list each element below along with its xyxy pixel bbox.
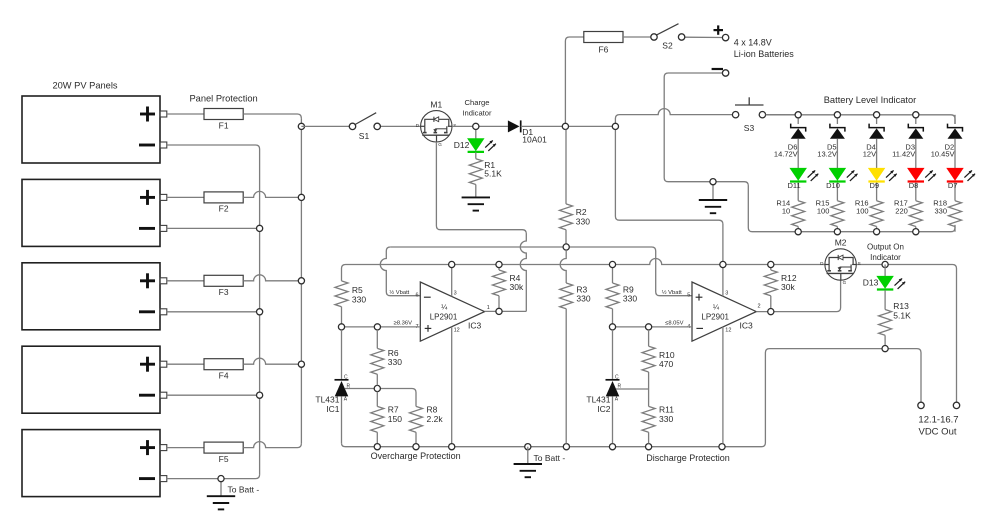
svg-text:LP2901: LP2901: [701, 312, 729, 321]
svg-text:C: C: [615, 374, 619, 380]
svg-text:330: 330: [659, 414, 673, 424]
svg-text:14.72V: 14.72V: [774, 150, 798, 159]
svg-text:6: 6: [416, 293, 419, 299]
svg-text:12: 12: [454, 328, 460, 334]
svg-text:Output On: Output On: [867, 242, 904, 251]
svg-text:R2: R2: [576, 207, 587, 217]
svg-text:Indicator: Indicator: [870, 253, 901, 262]
svg-text:D9: D9: [870, 181, 880, 190]
svg-text:30k: 30k: [781, 282, 795, 292]
svg-text:≥8.36V: ≥8.36V: [394, 320, 412, 326]
svg-text:3: 3: [454, 290, 457, 296]
svg-text:To Batt -: To Batt -: [534, 453, 566, 463]
svg-text:5.1K: 5.1K: [893, 311, 911, 321]
svg-text:2: 2: [758, 303, 761, 309]
svg-text:330: 330: [576, 294, 590, 304]
svg-text:220: 220: [895, 207, 908, 216]
svg-text:M2: M2: [835, 238, 847, 248]
svg-text:G: G: [843, 280, 847, 285]
svg-text:Indicator: Indicator: [462, 108, 492, 117]
svg-text:LP2901: LP2901: [430, 312, 458, 321]
svg-text:330: 330: [576, 217, 590, 227]
svg-text:S3: S3: [744, 123, 755, 133]
svg-text:100: 100: [817, 207, 830, 216]
svg-text:30k: 30k: [510, 282, 524, 292]
svg-text:¼: ¼: [441, 302, 448, 311]
svg-text:11.42V: 11.42V: [892, 150, 915, 159]
svg-text:D10: D10: [826, 181, 840, 190]
svg-text:½ Vbatt: ½ Vbatt: [389, 289, 409, 296]
svg-text:F1: F1: [219, 120, 229, 130]
svg-text:F4: F4: [219, 371, 229, 381]
svg-text:10: 10: [782, 207, 790, 216]
svg-text:100: 100: [856, 207, 869, 216]
svg-text:5: 5: [687, 293, 690, 299]
svg-text:R13: R13: [893, 301, 909, 311]
svg-text:Charge: Charge: [465, 98, 490, 107]
svg-text:F2: F2: [219, 204, 229, 214]
svg-text:IC1: IC1: [326, 404, 340, 414]
svg-text:IC2: IC2: [597, 404, 611, 414]
svg-text:G: G: [438, 142, 442, 147]
svg-text:M1: M1: [430, 99, 442, 109]
svg-text:330: 330: [352, 294, 366, 304]
svg-text:D11: D11: [787, 181, 800, 190]
svg-text:½ Vbatt: ½ Vbatt: [662, 289, 682, 296]
svg-text:Discharge Protection: Discharge Protection: [646, 453, 730, 463]
svg-text:IC3: IC3: [740, 320, 754, 330]
svg-text:S: S: [858, 261, 861, 266]
svg-text:C: C: [344, 374, 348, 380]
svg-text:330: 330: [388, 357, 402, 367]
svg-text:330: 330: [623, 294, 637, 304]
svg-text:5.1K: 5.1K: [484, 169, 502, 179]
svg-text:To Batt -: To Batt -: [228, 484, 260, 494]
svg-text:¼: ¼: [713, 302, 720, 311]
svg-text:20W PV Panels: 20W PV Panels: [52, 81, 117, 91]
svg-text:D7: D7: [948, 181, 958, 190]
svg-text:Panel Protection: Panel Protection: [189, 93, 257, 103]
svg-text:2.2k: 2.2k: [427, 414, 444, 424]
svg-text:F6: F6: [598, 44, 608, 54]
svg-text:F5: F5: [219, 454, 229, 464]
svg-text:470: 470: [659, 359, 673, 369]
svg-text:150: 150: [388, 414, 402, 424]
svg-text:Li-ion Batteries: Li-ion Batteries: [734, 49, 795, 59]
svg-text:Overcharge Protection: Overcharge Protection: [371, 451, 461, 461]
svg-text:D13: D13: [863, 277, 879, 287]
svg-text:13.2V: 13.2V: [817, 150, 837, 159]
svg-text:D8: D8: [909, 181, 919, 190]
svg-text:F3: F3: [219, 287, 229, 297]
svg-text:TL431: TL431: [315, 394, 339, 404]
svg-text:D12: D12: [454, 140, 470, 150]
svg-text:1: 1: [487, 305, 490, 311]
svg-text:4 x 14.8V: 4 x 14.8V: [734, 38, 772, 48]
svg-text:S2: S2: [662, 41, 673, 51]
svg-text:10A01: 10A01: [522, 135, 547, 145]
svg-text:S1: S1: [359, 131, 370, 141]
svg-text:VDC Out: VDC Out: [918, 426, 956, 437]
svg-text:330: 330: [934, 207, 947, 216]
svg-text:3: 3: [725, 290, 728, 296]
svg-text:12.1-16.7: 12.1-16.7: [918, 415, 958, 426]
svg-text:TL431: TL431: [586, 394, 610, 404]
svg-text:IC3: IC3: [468, 320, 482, 330]
svg-text:≤8.05V: ≤8.05V: [665, 320, 683, 326]
svg-text:10.45V: 10.45V: [931, 150, 955, 159]
svg-text:12V: 12V: [863, 150, 876, 159]
svg-text:12: 12: [725, 328, 731, 334]
svg-text:Battery Level Indicator: Battery Level Indicator: [824, 95, 917, 105]
